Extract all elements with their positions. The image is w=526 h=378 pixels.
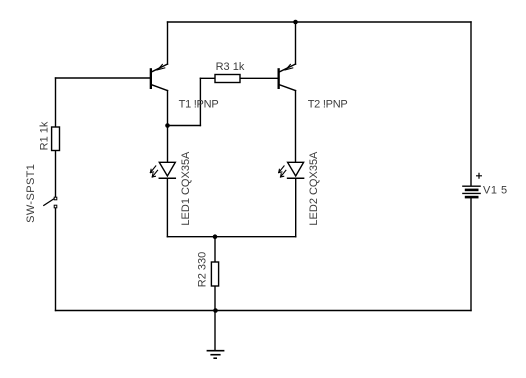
svg-text:LED2 CQX35A: LED2 CQX35A	[308, 151, 320, 226]
svg-text:SW-SPST1: SW-SPST1	[25, 164, 37, 223]
svg-text:T2 !PNP: T2 !PNP	[308, 98, 348, 110]
svg-text:R3 1k: R3 1k	[216, 61, 245, 73]
svg-text:R1 1k: R1 1k	[38, 121, 50, 150]
svg-text:V1 5: V1 5	[483, 184, 508, 196]
svg-text:T1 !PNP: T1 !PNP	[179, 98, 219, 110]
svg-text:R2 330: R2 330	[197, 252, 209, 287]
svg-text:LED1 CQX35A: LED1 CQX35A	[180, 151, 192, 226]
